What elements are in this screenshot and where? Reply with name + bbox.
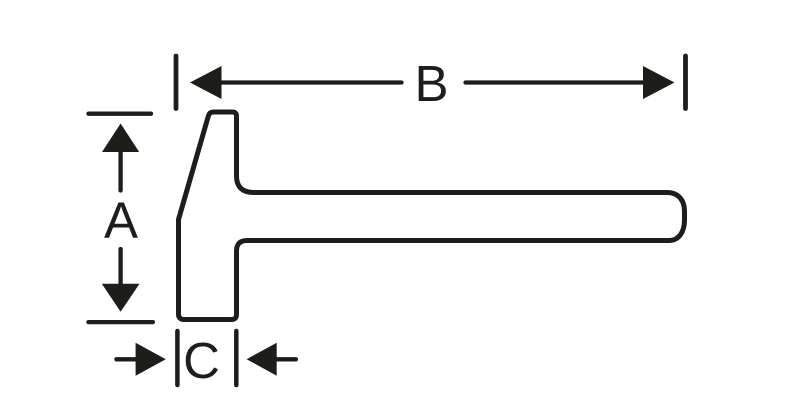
dimension C right tick xyxy=(234,331,239,385)
dimension B left arrowhead xyxy=(190,66,222,99)
dimension C right arrow line xyxy=(272,357,296,361)
dimension C left arrow line xyxy=(116,357,140,361)
dimension C left arrowhead xyxy=(136,343,166,376)
dimension B left tick xyxy=(174,56,179,109)
dimension B right arrowhead xyxy=(643,66,675,99)
dimension C right arrowhead xyxy=(247,343,277,376)
dimension A down arrowhead xyxy=(102,284,140,312)
dimension A bottom tick xyxy=(88,320,152,324)
svg-text:A: A xyxy=(104,192,138,249)
dimension B line right segment xyxy=(466,80,647,84)
svg-text:B: B xyxy=(414,55,448,112)
dimension B right tick xyxy=(683,56,688,109)
hammer outline xyxy=(179,112,685,320)
dimension A top tick xyxy=(89,112,152,116)
dimension B line left segment xyxy=(219,80,402,84)
dimension A upper line segment xyxy=(118,150,122,191)
dimension A lower line segment xyxy=(118,249,122,285)
svg-text:C: C xyxy=(183,332,220,389)
dimension A up arrowhead xyxy=(102,124,139,153)
dimension C left tick xyxy=(175,331,180,385)
